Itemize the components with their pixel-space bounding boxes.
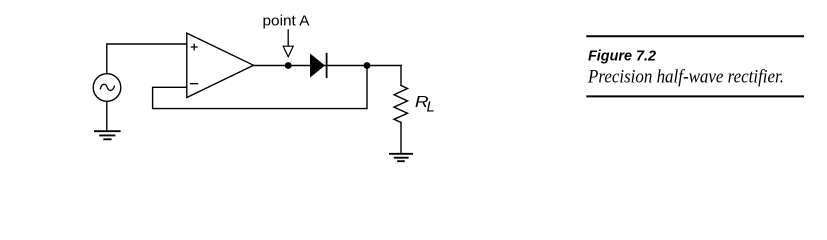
- svg-text:Figure 7.2: Figure 7.2: [588, 48, 656, 64]
- svg-text:L: L: [427, 99, 435, 116]
- svg-text:point A: point A: [263, 13, 310, 29]
- svg-text:Precision half-wave rectifier.: Precision half-wave rectifier.: [587, 67, 784, 88]
